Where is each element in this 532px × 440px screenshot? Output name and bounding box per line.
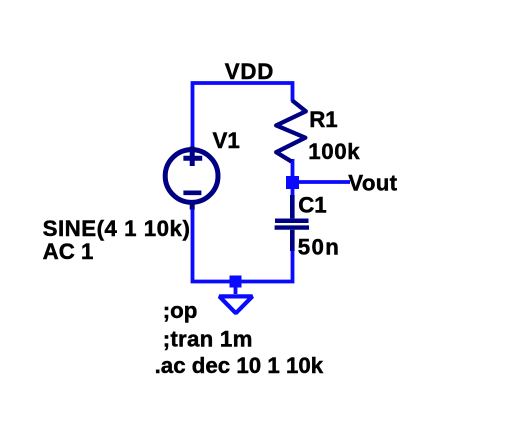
capacitor C1 bottom plate [275,225,309,229]
svg-text:.ac dec 10 1 10k: .ac dec 10 1 10k [155,353,324,378]
capacitor C1 bottom lead [290,230,295,251]
svg-text:V1: V1 [213,128,240,153]
svg-text:;op: ;op [163,298,198,323]
wire node to capacitor top [291,182,295,197]
capacitor C1 top plate [275,218,309,223]
wire top run VDD: left vertical, top horizontal, right vertical [193,83,293,147]
svg-text:100k: 100k [308,139,360,164]
svg-text:50n: 50n [298,234,340,259]
svg-text:;tran 1m: ;tran 1m [163,327,253,352]
resistor R1 zigzag [276,101,306,162]
wire Vout horizontal [293,180,351,184]
svg-text:AC 1: AC 1 [43,239,94,264]
svg-text:Vout: Vout [348,171,397,196]
svg-text:VDD: VDD [225,59,274,84]
voltage source V1 circle [165,150,218,203]
wire resistor bottom to node [291,159,295,182]
ground symbol [219,296,252,313]
ground stub wire [234,282,238,295]
voltage source bottom pin stub [190,202,195,210]
node junction at ground [230,276,242,288]
voltage source minus sign [183,191,201,196]
svg-text:C1: C1 [298,192,327,217]
wire bottom run: source bottom, bottom horizontal, capacitor bottom [193,206,293,282]
svg-text:SINE(4 1 10k): SINE(4 1 10k) [43,216,191,241]
svg-text:R1: R1 [309,107,338,132]
voltage source plus sign [183,147,202,167]
node junction at R1/C1/Vout [286,176,299,189]
capacitor C1 top lead [290,195,295,218]
